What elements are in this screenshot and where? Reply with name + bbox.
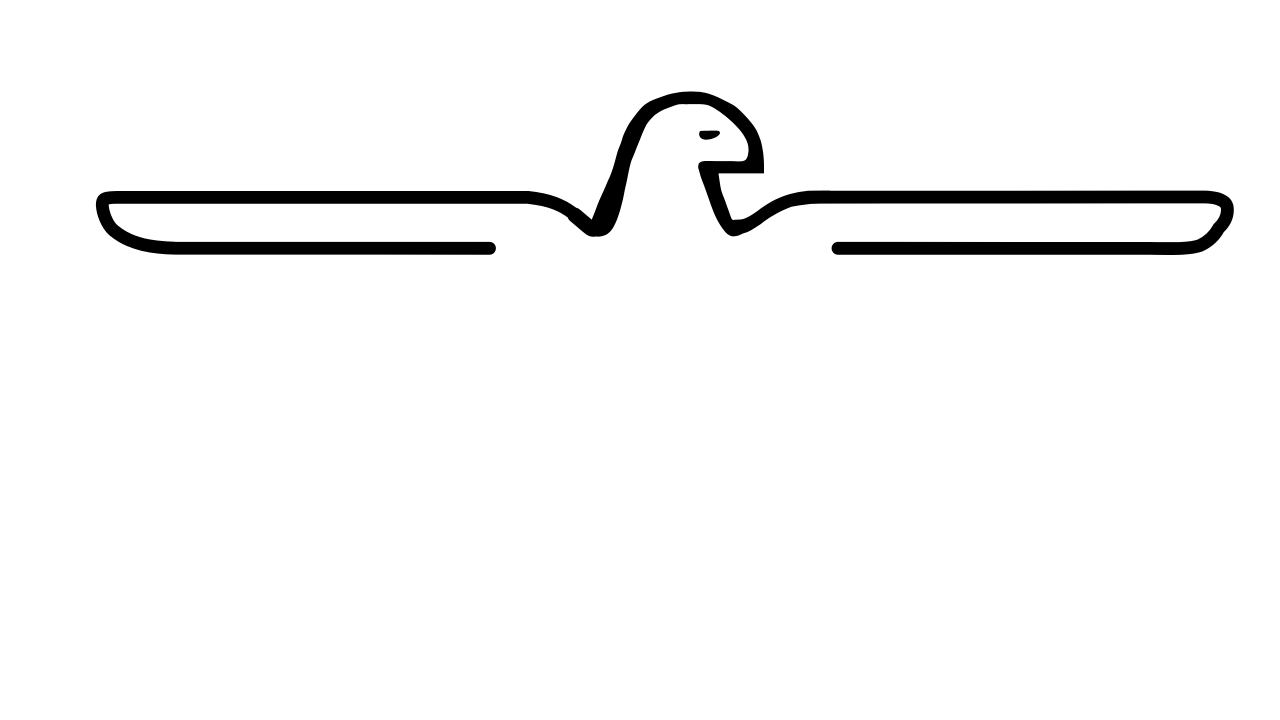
dip thick overlay bbox=[575, 215, 604, 229]
head band fill: neck, crown, beak bar, chin, rise bbox=[588, 92, 831, 237]
right wing: top line, tip curl, bottom line bbox=[808, 197, 1227, 249]
left wing: bottom line, tip curl, top line, dip bbox=[102, 197, 604, 248]
eye bbox=[699, 131, 720, 140]
